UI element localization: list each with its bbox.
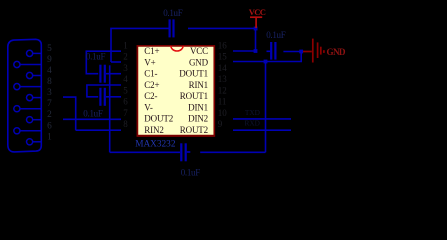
J1 pin 5 circle <box>27 50 42 56</box>
svg-text:RIN2: RIN2 <box>144 125 163 135</box>
svg-text:VCC: VCC <box>249 7 266 17</box>
J1 pin numbers <box>47 44 52 142</box>
svg-text:0.1uF: 0.1uF <box>266 30 286 40</box>
svg-text:3: 3 <box>47 88 52 98</box>
J1 pin 3 circle <box>27 95 42 101</box>
node junction GND <box>299 50 303 54</box>
capacitor C1 0.1uF plates <box>100 65 104 83</box>
J1 pin 7 circle <box>14 106 42 112</box>
wire GND junction down to pin15 row <box>266 52 302 62</box>
U1 right pin numbers 16-9 <box>218 40 228 129</box>
wire bottom rail left <box>110 151 180 153</box>
svg-text:ROUT1: ROUT1 <box>180 91 208 101</box>
svg-text:GND: GND <box>327 47 346 57</box>
svg-text:DOUT1: DOUT1 <box>179 69 208 79</box>
svg-text:8: 8 <box>47 77 52 87</box>
svg-text:16: 16 <box>218 40 228 50</box>
capacitor C4 0.1uF plates <box>271 42 275 60</box>
svg-text:3: 3 <box>123 63 128 73</box>
wire V+ vertical to top cap <box>111 28 169 62</box>
J1 pin 9 circle <box>14 61 42 67</box>
wire C3 right to VCC junction <box>188 27 256 29</box>
svg-text:1: 1 <box>123 40 128 50</box>
connector J1 DB9 body <box>8 39 42 152</box>
capacitor C3 0.1uF plates (top) <box>170 19 174 37</box>
svg-text:5: 5 <box>47 44 52 54</box>
J1 pin 1 circle <box>27 139 42 145</box>
svg-text:DIN1: DIN1 <box>188 102 208 112</box>
svg-text:7: 7 <box>123 108 128 118</box>
wire C4 right to GND junction <box>283 51 301 53</box>
wire pin16 VCC row <box>233 50 256 52</box>
U1 bottom border accent <box>137 135 216 137</box>
svg-text:15: 15 <box>218 52 228 62</box>
svg-text:RXD: RXD <box>245 119 260 128</box>
wire V- rail vertical left <box>109 65 111 152</box>
capacitor C2 0.1uF plates <box>100 88 104 106</box>
svg-text:11: 11 <box>218 97 227 107</box>
svg-text:GND: GND <box>189 57 209 67</box>
U1 right pin names <box>179 46 208 135</box>
svg-text:VCC: VCC <box>190 46 208 56</box>
svg-text:14: 14 <box>218 63 228 73</box>
svg-text:V-: V- <box>144 102 153 112</box>
J1 pin 4 circle <box>27 72 42 78</box>
wire bottom rail right <box>200 151 265 153</box>
U1 left pin numbers 1-8 <box>123 40 128 129</box>
wire pin4 C2+ row <box>87 85 121 97</box>
wire GND rail down right side <box>265 62 267 153</box>
J1 pin 8 circle <box>14 84 42 90</box>
svg-text:C1+: C1+ <box>144 46 159 56</box>
capacitor C4 0.1uF left lead <box>267 50 271 52</box>
svg-text:8: 8 <box>123 119 128 129</box>
wire DB9 pin2 to pin7 DOUT2 <box>63 118 121 120</box>
svg-text:1: 1 <box>47 132 52 142</box>
power port VCC <box>250 17 262 28</box>
svg-text:C2+: C2+ <box>144 80 159 90</box>
svg-text:4: 4 <box>47 66 52 76</box>
svg-text:9: 9 <box>47 55 52 65</box>
U1 left pin names <box>144 46 173 135</box>
node junction pin16 <box>254 49 258 53</box>
svg-text:2: 2 <box>47 110 52 120</box>
wire VCC junction down to pin16 row <box>255 28 257 51</box>
svg-text:9: 9 <box>218 119 223 129</box>
svg-text:C2-: C2- <box>144 91 157 101</box>
svg-text:ROUT2: ROUT2 <box>180 125 208 135</box>
wire pin8 RIN2 row <box>76 129 121 131</box>
svg-text:2: 2 <box>123 52 128 62</box>
svg-text:12: 12 <box>218 85 227 95</box>
svg-text:RIN1: RIN1 <box>189 80 208 90</box>
IC U1 MAX232 body <box>137 46 214 136</box>
ground symbol GND (rotated) <box>303 39 324 63</box>
U1 notch <box>171 46 183 51</box>
svg-text:0.1uF: 0.1uF <box>181 168 201 178</box>
svg-text:C1-: C1- <box>144 69 157 79</box>
svg-text:5: 5 <box>123 85 128 95</box>
wire RXD pin9 <box>233 129 291 131</box>
node VCC junction top <box>254 27 258 31</box>
svg-text:6: 6 <box>123 97 128 107</box>
svg-text:0.1uF: 0.1uF <box>163 8 183 18</box>
svg-text:DOUT2: DOUT2 <box>144 114 173 124</box>
svg-text:10: 10 <box>218 108 228 118</box>
J1 pin 6 circle <box>14 128 42 134</box>
svg-text:13: 13 <box>218 74 228 84</box>
wire C1 right lead to pin3 <box>106 73 121 75</box>
J1 pin 2 circle <box>27 117 42 123</box>
wire C5 right nub <box>187 151 191 153</box>
wire DB9 pin3 stub <box>63 97 76 130</box>
wire pin1 C1+ row <box>86 51 121 73</box>
svg-text:7: 7 <box>47 99 52 109</box>
svg-text:4: 4 <box>123 74 128 84</box>
wire pin15 GND row <box>233 61 266 63</box>
node junction pin15 <box>264 60 268 64</box>
svg-text:MAX3232: MAX3232 <box>135 140 176 150</box>
svg-text:TXD: TXD <box>245 108 260 117</box>
svg-text:6: 6 <box>47 121 52 131</box>
svg-text:V+: V+ <box>144 57 155 67</box>
svg-text:DIN2: DIN2 <box>188 114 208 124</box>
wire TXD pin10 <box>233 118 291 120</box>
svg-text:0.1uF: 0.1uF <box>86 51 106 61</box>
svg-text:0.1uF: 0.1uF <box>83 108 103 118</box>
wire C2 right lead to pin5 <box>106 96 121 98</box>
wire pin2 V+ row <box>111 61 121 63</box>
capacitor C5 0.1uF plates (bottom) <box>181 143 185 161</box>
